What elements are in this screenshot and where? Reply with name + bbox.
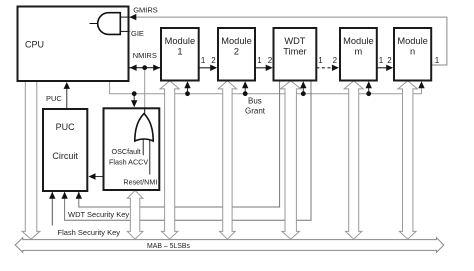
arrowhead module1 input <box>210 65 217 71</box>
wire WDT security key <box>65 81 311 220</box>
bus shaft Module 2 double-headed <box>218 81 236 239</box>
OSCfault / Flash ACCV box <box>104 108 160 190</box>
arrowhead wdt irq <box>300 81 306 88</box>
wire GIE stub <box>120 30 131 32</box>
svg-text:1: 1 <box>177 47 182 57</box>
arrowhead flash key into PUC <box>49 192 55 199</box>
wire bus-grant gray line from CPU to modules <box>110 81 422 94</box>
svg-text:WDT Security Key: WDT Security Key <box>68 210 129 219</box>
svg-text:2: 2 <box>387 56 392 65</box>
and-gate U1 in CPU <box>90 13 129 35</box>
svg-text:1: 1 <box>379 56 384 65</box>
wire module m irq stub <box>368 87 370 94</box>
wire module1 to module2 <box>199 67 216 69</box>
arrowhead OSCfault to PUC <box>89 173 96 179</box>
svg-text:2: 2 <box>268 56 273 65</box>
arrowhead module m irq <box>366 81 372 88</box>
wire PUC arrow line <box>66 87 68 110</box>
arrowhead PUC into CPU <box>64 82 70 89</box>
junction dot module2 irq <box>243 91 248 96</box>
MAB bus with left and right arrowheads <box>15 238 444 253</box>
arrowhead module1 irq <box>184 81 190 88</box>
arrowhead module m input <box>332 65 339 71</box>
arrowhead into OSCfault box top <box>131 100 137 107</box>
Module 1 box <box>161 28 199 81</box>
wire OSCfault to PUC circuit <box>93 176 104 178</box>
Module n box <box>394 28 431 81</box>
svg-text:Module: Module <box>221 36 252 46</box>
svg-text:Flash ACCV: Flash ACCV <box>109 158 148 167</box>
svg-text:1: 1 <box>435 56 440 65</box>
svg-text:Circuit: Circuit <box>52 151 78 161</box>
junction dot NMIRS <box>142 65 147 70</box>
wire wdt irq stub <box>302 87 304 94</box>
svg-text:1: 1 <box>318 56 323 65</box>
arrowhead NMIRS left <box>130 65 137 71</box>
bus shaft WDT double-headed <box>281 81 301 239</box>
junction dot module m irq <box>366 91 371 96</box>
arrowhead module n input <box>386 65 393 71</box>
svg-text:PUC: PUC <box>56 122 76 132</box>
svg-text:n: n <box>410 47 415 57</box>
arrowhead NMIRS right <box>153 65 160 71</box>
svg-text:Module: Module <box>343 36 374 46</box>
bus shaft Reset/NMI double-headed <box>127 190 143 239</box>
svg-text:MAB – 5LSBs: MAB – 5LSBs <box>147 243 190 250</box>
Module 2 box <box>218 28 255 81</box>
or-gate U2 in OSCfault box <box>135 108 153 174</box>
svg-text:NMIRS: NMIRS <box>133 51 157 60</box>
wire NMIRS line <box>129 67 161 69</box>
Module m box <box>340 28 377 81</box>
arrowhead module2 irq <box>242 81 248 88</box>
svg-text:2: 2 <box>333 56 338 65</box>
arrowhead module n irq <box>418 81 424 88</box>
bus shaft Module m double-headed <box>344 81 363 239</box>
junction dot module1 irq <box>185 91 190 96</box>
svg-text:OSCfault: OSCfault <box>112 147 141 156</box>
wire branch down into OSCfault box <box>133 94 135 101</box>
wire GMIRS feedback loop from Module n pin 1 to AND gate input <box>130 17 447 65</box>
wire flash security key vertical <box>51 191 53 226</box>
bus shaft Module 1 double-headed <box>160 81 179 239</box>
bus shaft Module n double-headed <box>398 81 417 239</box>
arrowhead GMIRS into gate <box>129 14 136 20</box>
arrowhead wdt input <box>266 65 273 71</box>
wire PUC source line from WDT <box>79 81 280 207</box>
svg-text:Timer: Timer <box>283 47 306 57</box>
svg-text:WDT: WDT <box>284 36 305 46</box>
svg-text:1: 1 <box>257 56 262 65</box>
WDT Timer box <box>274 28 317 81</box>
junction dot wdt irq <box>301 91 306 96</box>
bus shaft CPU to MAB <box>22 81 40 239</box>
arrowhead puc line into PUC <box>76 192 82 199</box>
svg-text:GMIRS: GMIRS <box>133 6 158 15</box>
svg-text:Module: Module <box>165 36 196 46</box>
svg-text:m: m <box>355 47 363 57</box>
svg-text:Module: Module <box>397 36 428 46</box>
wire module1 irq stub <box>187 87 189 94</box>
wire module2 irq stub <box>244 87 246 94</box>
svg-text:PUC: PUC <box>46 94 62 103</box>
svg-text:2: 2 <box>211 56 216 65</box>
wire NMIRS to OR gate output <box>144 68 146 114</box>
CPU box <box>18 7 129 82</box>
junction dot OSCfault branch <box>132 91 137 96</box>
svg-text:Reset/NMI: Reset/NMI <box>123 178 157 187</box>
wire wdt to module m dashed <box>316 67 337 69</box>
svg-text:Grant: Grant <box>245 107 266 116</box>
arrowhead wdt key into PUC <box>61 192 67 199</box>
svg-text:CPU: CPU <box>25 40 44 50</box>
svg-text:Bus: Bus <box>248 97 262 106</box>
wire module2 to wdt <box>255 67 272 69</box>
svg-text:Flash Security Key: Flash Security Key <box>58 228 121 237</box>
svg-text:1: 1 <box>201 56 206 65</box>
svg-text:GIE: GIE <box>131 29 144 38</box>
PUC Circuit box <box>43 109 87 191</box>
svg-text:2: 2 <box>234 47 239 57</box>
wire module m to module n <box>377 67 392 69</box>
